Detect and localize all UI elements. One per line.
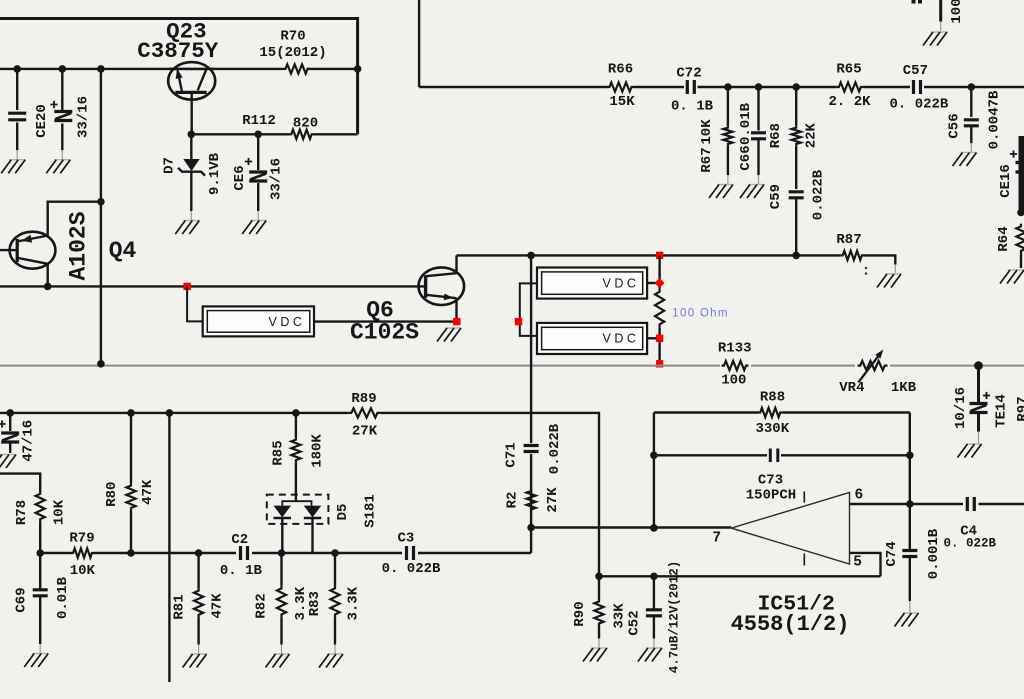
node junction x796 y87: [792, 83, 800, 91]
ground: [242, 221, 266, 235]
svg-text:47K: 47K: [140, 479, 156, 505]
node junction x910 y455: [906, 452, 914, 460]
svg-text:VDC: VDC: [603, 332, 640, 346]
label partial top: [912, 0, 916, 4]
node junction x10: [6, 409, 14, 417]
svg-text:0.0047B: 0.0047B: [987, 90, 1003, 149]
node junction x101 gray: [97, 360, 105, 368]
node junction x191 y134: [188, 131, 196, 139]
resistor R2 27K: [527, 489, 536, 511]
svg-text:27K: 27K: [545, 487, 561, 513]
node junction CE16: [1017, 209, 1024, 217]
svg-text:C52: C52: [627, 610, 643, 635]
svg-text:100 Ohm: 100 Ohm: [672, 307, 728, 319]
node junction x531 y527: [527, 524, 535, 532]
node junction x48 y286: [44, 283, 52, 291]
svg-text:R70: R70: [280, 29, 305, 45]
VDC box left: [187, 286, 203, 321]
ground: [437, 328, 461, 342]
svg-text:C73: C73: [758, 473, 783, 489]
ground: [958, 444, 982, 458]
resistor R87: [841, 251, 864, 260]
ground: [923, 32, 947, 46]
svg-text:C57: C57: [903, 63, 928, 79]
resistor R89 27K: [348, 408, 380, 417]
capacitor C4 0.022B: [967, 497, 974, 511]
node red bracket: [515, 318, 522, 325]
ground: [1000, 270, 1024, 284]
svg-text:R68: R68: [768, 123, 784, 148]
node junction x971 y87: [968, 83, 976, 91]
resistor R79 10K: [71, 548, 94, 557]
node red diamond box1: [655, 278, 665, 288]
node junction x654 y527: [650, 524, 658, 532]
ground: [895, 613, 919, 627]
svg-text:R87: R87: [836, 232, 861, 248]
resistor R64: [1016, 224, 1024, 254]
svg-text:R112: R112: [242, 113, 276, 129]
node junction x101: [97, 65, 105, 73]
svg-text:C56: C56: [947, 113, 963, 138]
svg-text:CE16: CE16: [998, 164, 1014, 198]
svg-text:4558(1/2): 4558(1/2): [731, 612, 850, 637]
ground: [953, 153, 977, 167]
wire rail y87: [419, 86, 607, 88]
capacitor CE16 right edge: [1019, 136, 1024, 213]
ground: [709, 185, 733, 199]
svg-text:10K: 10K: [70, 563, 96, 579]
svg-text:A102S: A102S: [66, 211, 92, 280]
node junction x296: [292, 409, 300, 417]
VDC box upper: [537, 268, 647, 299]
svg-text:R89: R89: [351, 391, 376, 407]
resistor R85 180K: [295, 413, 297, 438]
wire collector rail y255: [457, 254, 841, 256]
node junction x358: [354, 65, 362, 73]
capacitor C59 0.022B: [789, 192, 804, 198]
svg-text:C2: C2: [231, 532, 248, 548]
svg-text:150PCH: 150PCH: [746, 488, 796, 504]
wire pin5 step: [850, 553, 881, 576]
svg-text:0.01B: 0.01B: [738, 102, 754, 145]
resistor R70 15(2012): [283, 64, 310, 73]
ground: [183, 654, 207, 668]
ground: [740, 185, 764, 199]
svg-text:C59: C59: [768, 184, 784, 209]
svg-text:33/16: 33/16: [76, 96, 92, 138]
resistor R133 100: [722, 361, 749, 370]
ground: [638, 648, 662, 662]
svg-text:0. 022B: 0. 022B: [382, 561, 441, 577]
svg-text:R79: R79: [69, 531, 94, 547]
wire top right stub x941: [939, 0, 942, 22]
svg-text:VR4: VR4: [839, 380, 864, 396]
wire feedback top rail R88: [654, 411, 758, 413]
svg-text:22K: 22K: [804, 123, 820, 149]
svg-text:R90: R90: [572, 601, 588, 626]
op-amp IC51/2 triangle: [731, 493, 849, 565]
capacitor TE14 10/16: [977, 366, 980, 402]
svg-text:VDC: VDC: [269, 315, 306, 329]
capacitor CE6 33/16: [257, 134, 259, 170]
capacitor CE20 33/16: [61, 69, 63, 110]
node red x187: [183, 283, 190, 290]
wire top feed x419: [418, 0, 420, 87]
op-amp input tick top: [803, 492, 805, 503]
svg-text:TE14: TE14: [994, 394, 1010, 428]
resistor R65 2.2K: [836, 82, 863, 91]
capacitor C73 150PCH: [770, 449, 778, 463]
ground: [0, 455, 16, 469]
svg-text:C66: C66: [738, 145, 754, 170]
transistor Q23 C3875Y: [168, 62, 215, 100]
capacitor C69 0.01B: [39, 553, 41, 589]
resistor R81 47K: [197, 553, 199, 588]
capacitor C56 0.0047B: [970, 87, 972, 117]
svg-text:C69: C69: [14, 587, 30, 612]
svg-text:7: 7: [712, 531, 721, 547]
wire feedback right vertical x910: [909, 413, 911, 505]
svg-text:C3875Y: C3875Y: [137, 38, 219, 64]
node junction x531 y255: [527, 252, 535, 260]
svg-text:0.022B: 0.022B: [811, 169, 827, 220]
wire bracket VDC boxes: [520, 283, 537, 336]
svg-text:R83: R83: [307, 591, 323, 616]
ground: [24, 654, 48, 668]
node junction TE14: [974, 361, 983, 370]
wire top rail: [0, 19, 358, 135]
wire upper rail y69 right part: [308, 68, 358, 70]
wire upper rail y69: [0, 68, 283, 70]
svg-text:R88: R88: [760, 390, 785, 406]
node junction x62: [59, 65, 67, 73]
wire pin6 out y504: [850, 503, 964, 505]
resistor R82 3.3K: [280, 553, 282, 585]
wire rail y576: [599, 575, 881, 577]
node junction x17: [13, 65, 21, 73]
node junction x758 y87: [755, 83, 763, 91]
ground: [1, 160, 25, 174]
node junction x131 y553: [127, 549, 135, 557]
ground: [319, 654, 343, 668]
svg-text:R80: R80: [104, 482, 120, 507]
node junction x101 y202: [97, 198, 105, 206]
svg-text:47/16: 47/16: [21, 420, 37, 462]
wire gray mid rail: [0, 365, 1024, 367]
svg-text:15K: 15K: [609, 94, 635, 110]
capacitor C71 0.022B: [524, 446, 539, 452]
capacitor C52 4.7uB: [653, 576, 655, 609]
node junction x728 y87: [724, 83, 732, 91]
svg-text:47K: 47K: [210, 593, 226, 619]
resistor R90 33K: [598, 576, 600, 599]
svg-text:1KB: 1KB: [891, 380, 917, 396]
svg-text:R78: R78: [14, 500, 30, 525]
node junction x654 y576: [650, 573, 658, 581]
resistor R88 330K: [758, 408, 782, 417]
capacitor C57 0.022B: [914, 80, 921, 94]
capacitor left C (x17): [16, 69, 18, 110]
transistor Q6 C102S: [419, 267, 465, 305]
svg-text:180K: 180K: [310, 434, 326, 468]
wire feedback C73 rail: [654, 454, 767, 456]
svg-text:33K: 33K: [612, 603, 628, 629]
capacitor C2 0.1B: [241, 546, 248, 560]
node red box2: [656, 335, 663, 342]
wire R112 rail y134: [191, 133, 289, 135]
wire VDC box to Q6 emitter: [314, 320, 457, 322]
svg-text:5: 5: [853, 555, 862, 571]
node junction x199 y553: [195, 549, 203, 557]
svg-text:CE20: CE20: [34, 104, 50, 138]
node red Q6 emitter: [453, 318, 460, 325]
wire rail y553: [40, 552, 71, 554]
svg-text:820: 820: [293, 116, 318, 132]
svg-text:6: 6: [855, 488, 864, 504]
svg-text:4.7uB/12V(2012): 4.7uB/12V(2012): [668, 561, 682, 674]
node junction x796 y255: [792, 252, 800, 260]
svg-text:R133: R133: [718, 341, 752, 357]
capacitor C3 0.022B: [407, 546, 414, 560]
resistor R83 3.3K: [334, 553, 336, 585]
VDC box lower: [537, 323, 647, 354]
svg-text:R65: R65: [836, 62, 861, 78]
svg-text:2. 2K: 2. 2K: [828, 94, 871, 110]
svg-text:C72: C72: [676, 66, 701, 82]
svg-text:3.3K: 3.3K: [346, 586, 362, 620]
svg-text:C74: C74: [884, 541, 900, 566]
capacitor 47/16 electrolytic: [9, 413, 11, 431]
wire long vertical x169: [168, 413, 170, 682]
svg-text:100: 100: [949, 0, 965, 24]
ground: [583, 648, 607, 662]
svg-text:0. 1B: 0. 1B: [220, 563, 263, 579]
resistor R66 15K: [607, 82, 634, 91]
wire vertical x531: [530, 255, 532, 443]
capacitor C66 0.01B: [757, 87, 759, 131]
ground: [175, 221, 199, 235]
svg-text:27K: 27K: [352, 423, 378, 439]
svg-text:33/16: 33/16: [269, 158, 285, 200]
svg-text:R67: R67: [699, 147, 715, 172]
svg-text:0.022B: 0.022B: [547, 423, 563, 474]
wire vertical x101: [100, 69, 102, 364]
svg-text:R85: R85: [271, 440, 287, 465]
svg-text:Q4: Q4: [109, 238, 137, 264]
node red grayline: [656, 360, 663, 367]
node junction x281 y553: [278, 549, 286, 557]
svg-text:CE6: CE6: [232, 165, 248, 190]
svg-text:R2: R2: [504, 492, 520, 509]
node red x660 y255: [656, 252, 663, 259]
diode pair D5 S181 dashed box: [267, 495, 329, 524]
ground: [877, 274, 901, 288]
resistor R67 10K: [727, 87, 729, 126]
svg-text:15(2012): 15(2012): [259, 45, 326, 61]
svg-text:S181: S181: [363, 494, 379, 528]
wire feedback left vertical x654: [653, 413, 655, 529]
svg-text:0.01B: 0.01B: [55, 576, 71, 619]
wire main rail y286: [0, 285, 425, 287]
node junction x654 y455: [650, 452, 658, 460]
wire y255 right of R87: [864, 255, 895, 264]
svg-text:D7: D7: [162, 157, 178, 174]
ground: [266, 654, 290, 668]
op-amp input tick bottom: [803, 554, 805, 566]
svg-text:330K: 330K: [755, 421, 789, 437]
svg-text:C71: C71: [504, 442, 520, 467]
svg-text:D5: D5: [335, 504, 351, 521]
svg-text:100: 100: [721, 373, 746, 389]
resistor R68 22K: [795, 87, 797, 126]
node junction x258 y134: [254, 131, 262, 139]
svg-text:0.001B: 0.001B: [926, 528, 942, 579]
svg-text:R82: R82: [254, 593, 270, 618]
resistor 100 Ohm vertical: [658, 255, 660, 288]
node junction x599 y576: [595, 573, 603, 581]
diode D7 zener 9.1VB: [190, 134, 192, 159]
svg-text:VDC: VDC: [603, 276, 640, 290]
wire rail y413 right: [380, 413, 599, 576]
resistor R80 47K: [130, 413, 132, 483]
wire R112 right: [314, 133, 358, 135]
svg-text:R64: R64: [996, 226, 1012, 251]
wire pin7 y527: [531, 526, 731, 528]
svg-text:0. 1B: 0. 1B: [671, 99, 714, 115]
colon mark: [865, 267, 868, 270]
resistor R78 10K: [36, 491, 45, 522]
resistor R112 820: [289, 130, 314, 139]
variable resistor VR4 1KB: [858, 361, 888, 370]
node junction x131: [127, 409, 135, 417]
svg-text:9.1VB: 9.1VB: [207, 152, 223, 195]
capacitor C74 0.001B: [909, 504, 911, 550]
svg-text:R66: R66: [608, 62, 633, 78]
svg-text:R97: R97: [1015, 396, 1024, 421]
svg-text:0. 022B: 0. 022B: [944, 537, 997, 551]
node junction x40 y553: [36, 549, 44, 557]
svg-text:0. 022B: 0. 022B: [889, 97, 948, 113]
svg-text:10/16: 10/16: [953, 387, 969, 429]
svg-text:10K: 10K: [52, 499, 68, 525]
transistor Q4 A102S: [10, 232, 56, 269]
node junction x910 y504: [906, 500, 914, 508]
svg-text:C3: C3: [397, 531, 414, 547]
svg-text:10K: 10K: [699, 119, 715, 145]
capacitor C72 0.1B: [687, 80, 694, 94]
wire rail y413: [0, 412, 348, 414]
wire Q4 emitter to rail: [48, 202, 101, 236]
node junction x169: [166, 409, 174, 417]
svg-text:C102S: C102S: [350, 320, 419, 346]
node junction x335 y553: [331, 549, 339, 557]
svg-text:R81: R81: [172, 594, 188, 619]
ground: [46, 160, 70, 174]
wire left y474: [0, 474, 40, 491]
